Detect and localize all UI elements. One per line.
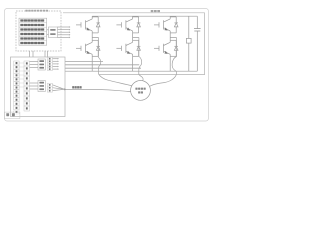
wire leg1 midpoint	[91, 33, 93, 40]
output pin strip bottom	[47, 83, 52, 92]
block detect circuit B	[38, 81, 45, 92]
legend cell	[4, 112, 20, 119]
wire strip link	[19, 82, 25, 84]
wire strip link	[19, 70, 25, 72]
wire speed reference to motor	[65, 89, 133, 92]
wire col2-blockA 1	[30, 61, 39, 63]
wire strip link	[19, 66, 25, 68]
control line 1	[65, 60, 103, 62]
pin stub 1	[29, 51, 31, 57]
wire phase tap 3	[170, 37, 176, 39]
IPM module label	[25, 10, 27, 12]
terminal strip column 2	[24, 61, 30, 66]
wire strip link	[19, 74, 25, 76]
control line 3	[65, 67, 141, 69]
wire rows-to-interface b	[47, 33, 49, 35]
pin stub 2	[32, 51, 34, 57]
wire phase U drop	[98, 38, 100, 75]
IPM module box U1	[16, 11, 61, 51]
wire phase U to motor	[99, 74, 135, 86]
wire pwm out 5	[53, 68, 58, 70]
transistor Q4 (IGBT with diode)	[76, 40, 100, 56]
pin stub 4	[47, 51, 49, 57]
speed reference label	[72, 86, 74, 88]
wire leg1 collector to bus	[91, 15, 93, 18]
wire leg3 midpoint	[169, 33, 171, 40]
signal line out 3	[58, 31, 69, 33]
resistor R1	[186, 38, 191, 43]
wire leg1 emitter to bus	[91, 56, 93, 71]
legend mark a	[6, 113, 9, 116]
wire fan to speed line	[53, 85, 65, 90]
legend mark b	[12, 113, 15, 116]
transistor Q2 (IGBT with diode)	[116, 17, 140, 33]
wire leg2 collector to bus	[132, 15, 134, 18]
wire pwm out 1	[53, 58, 58, 60]
transistor Q3 (IGBT with diode)	[154, 17, 178, 33]
wire phase tap 2	[133, 37, 139, 39]
pin stub 3	[44, 51, 46, 57]
wire rows-to-interface a	[47, 29, 49, 31]
wire phase tap 1	[92, 37, 98, 39]
signal line out 2	[58, 29, 69, 31]
wire col2-blockB 3	[30, 88, 39, 90]
block detect circuit A	[38, 59, 45, 70]
DC+ top bus	[92, 15, 197, 17]
wire phase V drop	[139, 38, 142, 75]
terminal strip column 1	[14, 61, 19, 65]
inverter outline (top, right, partial bottom)	[63, 13, 205, 75]
wire to capacitor C1	[196, 16, 198, 28]
motor M1 circle	[131, 81, 151, 101]
wire leg2 midpoint	[132, 33, 134, 40]
transistor Q6 (IGBT with diode)	[154, 40, 178, 56]
motor label line2	[138, 91, 140, 93]
wire capacitor C1 to bus	[196, 31, 198, 71]
wire leg3 collector to bus	[169, 15, 171, 18]
control line 2	[65, 64, 139, 66]
wire col2-blockB 1	[30, 82, 39, 84]
transistor Q5 (IGBT with diode)	[116, 40, 140, 56]
signal line out 5	[58, 36, 69, 38]
wire col2-blockB 2	[30, 85, 39, 87]
DC- bottom bus	[65, 70, 197, 72]
inverter box label	[151, 10, 154, 12]
wire phase W drop	[172, 38, 176, 75]
wire col2-blockA 3	[30, 67, 39, 69]
wire resistor R1 to bus	[188, 43, 190, 71]
signal line out 4	[58, 34, 69, 36]
driver row labels	[20, 19, 23, 21]
output pin strip top	[47, 57, 52, 70]
signal line out 1	[58, 26, 69, 28]
wire leg2 emitter to bus	[132, 56, 134, 71]
system boundary frame	[5, 9, 209, 122]
wire strip link	[19, 62, 25, 64]
driver rows box	[19, 18, 47, 45]
wire leg3 emitter to bus	[169, 56, 171, 71]
controller box	[11, 57, 66, 117]
wire phase W to motor	[148, 74, 176, 87]
wire pwm out 3	[53, 63, 58, 65]
wire pwm out 2	[53, 60, 58, 62]
wire strip link	[19, 78, 25, 80]
wire phase V to motor	[139, 74, 143, 83]
wire to resistor R1	[188, 16, 190, 38]
wire pwm out 4	[53, 66, 58, 68]
interface box	[49, 27, 58, 38]
wire strip link	[19, 86, 25, 88]
transistor Q1 (IGBT with diode)	[76, 17, 100, 33]
wire col2-blockA 2	[30, 64, 39, 66]
motor label line1	[135, 88, 137, 90]
capacitor C1	[194, 28, 201, 30]
